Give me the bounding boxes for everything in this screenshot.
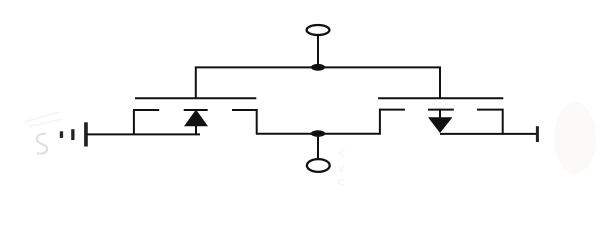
channel source dash Q2 [477, 109, 504, 111]
wire: gate lead of Q2 [439, 67, 441, 99]
wire: top terminal lead [317, 36, 319, 68]
bulk arrow Q2 (points down) [428, 117, 453, 133]
channel drain dash Q2 [379, 109, 405, 111]
wire: gate lead of Q1 [195, 67, 197, 99]
watermark (faint vertical letters near bottom terminal) [338, 146, 346, 189]
drain bend Q1 [256, 109, 258, 134]
drain bend Q2 [379, 109, 381, 135]
bulk stub Q2 [439, 110, 441, 118]
gate bar Q1 [135, 97, 256, 99]
wire: Q2 source to right terminal rail [440, 133, 537, 135]
watermark (faint S and scribbles, left) [24, 112, 62, 154]
junction: bottom output node dot [311, 130, 325, 137]
svg-text:v: v [338, 160, 345, 175]
channel source dash Q1 [133, 109, 159, 111]
wire: bottom terminal lead [317, 134, 319, 159]
node: bottom output terminal (open circle) [307, 159, 330, 172]
wire: source to Q1 source rail [87, 133, 201, 135]
bulk stub Q1 [195, 125, 197, 134]
source bend Q2 [502, 109, 504, 135]
watermark (faint blob, right) [554, 102, 596, 174]
channel drain dash Q1 [232, 109, 258, 111]
channel body dash Q1 [184, 109, 208, 111]
bulk arrow Q1 (points up) [184, 110, 208, 127]
node: top supply terminal (open circle) [307, 25, 330, 35]
channel body dash Q2 [428, 109, 454, 111]
gate bar Q2 [378, 97, 503, 99]
svg-text:<: < [338, 146, 346, 161]
svg-text:c: c [338, 174, 345, 189]
source VS (left input: three stepped bars) [60, 122, 88, 146]
wire: Q1 drain to output node rail [256, 133, 380, 135]
junction: top node dot [311, 64, 325, 71]
wire: top rail [195, 66, 441, 68]
transistor Q1 (left MOSFET, bulk arrow pointing up) [133, 98, 258, 134]
terminal: right output bar [536, 126, 539, 142]
transistor Q2 (right MOSFET, bulk arrow pointing down) [378, 98, 503, 134]
source bend Q1 [133, 109, 135, 134]
